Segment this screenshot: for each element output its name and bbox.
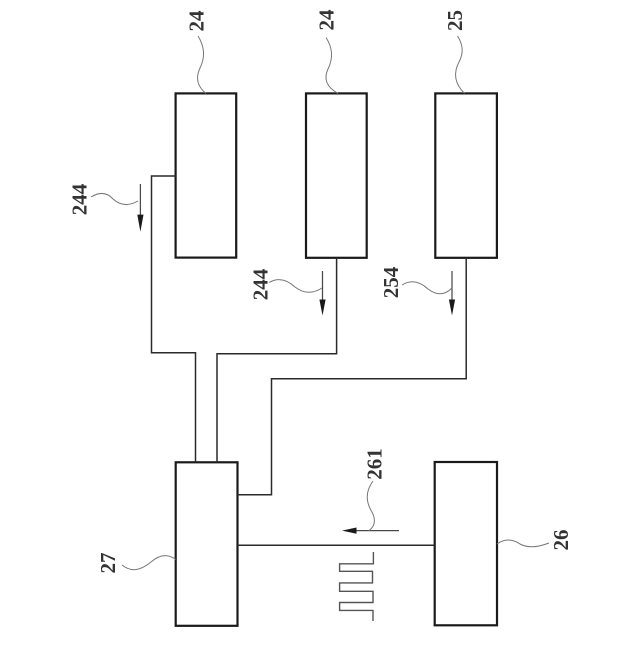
- arrow for 254: [451, 271, 453, 304]
- arrow for 261: [352, 530, 399, 532]
- wire from block 25 to block 27: [238, 258, 467, 495]
- block 24 (second): [306, 93, 367, 257]
- svg-text:261: 261: [363, 448, 387, 480]
- block 27: [176, 462, 238, 626]
- svg-text:27: 27: [96, 553, 120, 574]
- leader for label 27: [122, 556, 176, 570]
- svg-text:25: 25: [443, 10, 467, 31]
- wire from block 24 (first) to block 27: [152, 176, 196, 462]
- block 26: [435, 462, 497, 625]
- leader for label 244 (first): [91, 193, 138, 204]
- leader for label 261: [367, 481, 374, 531]
- block 24 (first): [176, 93, 237, 257]
- svg-text:244: 244: [249, 268, 273, 300]
- wire from block 27 to block 26: [238, 544, 435, 546]
- leader for label 25: [456, 36, 465, 93]
- leader for label 24 (first): [198, 36, 206, 93]
- svg-text:26: 26: [549, 530, 573, 551]
- block 25: [435, 93, 497, 257]
- svg-text:244: 244: [68, 183, 92, 215]
- square wave symbol 261: [340, 552, 374, 621]
- svg-text:24: 24: [315, 9, 339, 31]
- wire from block 24 (second) to block 27: [217, 258, 337, 463]
- svg-text:24: 24: [185, 10, 209, 32]
- leader for label 254: [402, 282, 452, 294]
- svg-text:254: 254: [379, 266, 403, 298]
- arrow for 244 (second): [322, 271, 324, 304]
- leader for label 26: [497, 540, 549, 547]
- leader for label 244 (second): [269, 280, 322, 293]
- leader for label 24 (second): [326, 38, 338, 94]
- arrow for 244 (first): [139, 184, 141, 220]
